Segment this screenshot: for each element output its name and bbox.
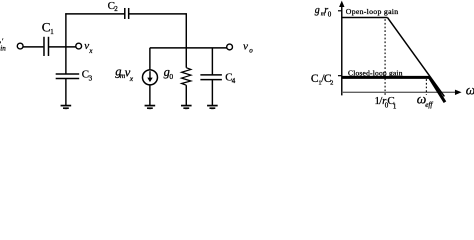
svg-text:v: v bbox=[243, 40, 248, 52]
svg-text:ω: ω bbox=[466, 83, 474, 98]
svg-text:in: in bbox=[0, 44, 6, 52]
svg-text:x: x bbox=[129, 74, 134, 83]
svg-text:0: 0 bbox=[169, 72, 173, 81]
svg-text:1: 1 bbox=[50, 28, 54, 36]
svg-text:2: 2 bbox=[330, 80, 333, 87]
svg-text:g: g bbox=[315, 5, 320, 16]
svg-text:Open-loop gain: Open-loop gain bbox=[346, 7, 399, 16]
svg-text:2: 2 bbox=[114, 5, 118, 13]
svg-text:Closed-loop gain: Closed-loop gain bbox=[348, 68, 403, 77]
svg-text:x: x bbox=[88, 47, 93, 55]
svg-text:C: C bbox=[42, 19, 51, 34]
svg-text:3: 3 bbox=[89, 75, 93, 83]
svg-text:eff: eff bbox=[425, 101, 433, 109]
svg-text:1: 1 bbox=[393, 102, 397, 110]
svg-text:o: o bbox=[249, 46, 253, 54]
svg-text:4: 4 bbox=[232, 77, 236, 85]
svg-text:0: 0 bbox=[328, 11, 332, 19]
